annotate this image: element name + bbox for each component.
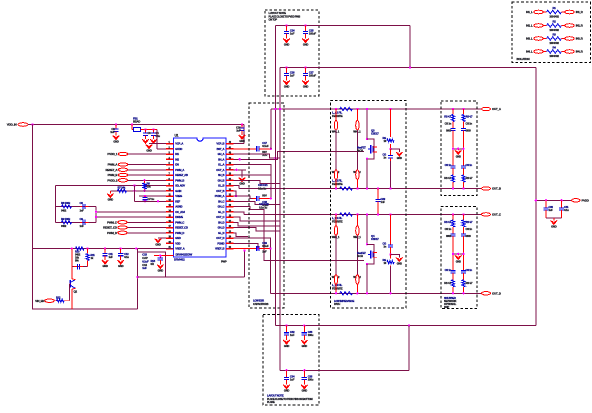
svg-text:100u: 100u <box>308 333 314 337</box>
jumper WA1 mid wire <box>335 130 337 170</box>
svg-text:FERRITE: FERRITE <box>332 219 343 223</box>
port P_R3R <box>565 37 575 41</box>
wire net MODE top <box>55 185 166 187</box>
jumper WA1 top lead <box>335 109 337 121</box>
node gndbox right node <box>136 276 138 278</box>
svg-text:0603: 0603 <box>446 129 452 133</box>
pin 40 stub (right) <box>226 153 234 155</box>
port J_IN <box>18 123 28 127</box>
ground C4 gnd <box>150 139 156 143</box>
capacitor C7 <box>142 196 147 201</box>
svg-text:1uF: 1uF <box>110 130 115 134</box>
node Q4 dnode <box>366 243 368 245</box>
svg-text:0.1u 1u: 0.1u 1u <box>258 187 267 191</box>
node PVDD2@R6 <box>143 179 145 181</box>
svg-text:100 0402: 100 0402 <box>549 41 559 45</box>
resistor R6 leads <box>144 180 146 191</box>
svg-text:GND: GND <box>303 43 309 47</box>
svg-text:1nF: 1nF <box>80 208 85 212</box>
svg-text:0.1uF: 0.1uF <box>262 144 269 148</box>
jumper WB2b <box>356 275 359 285</box>
svg-text:CS 1n: CS 1n <box>445 268 452 272</box>
pin 14 stub (left) <box>166 211 174 213</box>
svg-text:PWM_C: PWM_C <box>175 220 184 224</box>
OCADJ gnd lead <box>109 191 111 194</box>
EN wire <box>54 300 69 302</box>
capacitor C32 <box>284 326 289 340</box>
svg-text:GND: GND <box>239 139 245 143</box>
capacitor C21s <box>461 233 466 254</box>
node VDD_IN@C2 <box>115 123 117 125</box>
pin 16 stub (left) <box>166 221 174 223</box>
svg-text:VCP_B: VCP_B <box>216 142 224 146</box>
resistor R10t <box>451 175 454 182</box>
wire sub wire <box>72 266 88 268</box>
ground C24 gnd <box>283 39 289 43</box>
node pgnd@244 <box>243 249 245 251</box>
R10t lead <box>452 169 454 175</box>
node VDD_IN/left drop <box>31 123 33 125</box>
port P_OUT_D <box>482 292 491 295</box>
svg-text:1uF: 1uF <box>109 255 114 259</box>
svg-text:REF: REF <box>175 199 180 203</box>
svg-text:GND: GND <box>397 156 402 160</box>
pin 5 stub (left) <box>166 164 174 166</box>
svg-text:0.1u: 0.1u <box>124 255 129 259</box>
node p20 dot <box>257 247 259 249</box>
pin 18 stub (left) <box>166 232 174 234</box>
svg-text:CS 1n: CS 1n <box>466 163 473 167</box>
Q2 collector <box>72 278 76 281</box>
svg-text:GND: GND <box>397 262 402 266</box>
p6 gnd drop <box>241 170 243 178</box>
svg-text:RESET_A: RESET_A <box>105 168 118 172</box>
node fb node c3 <box>144 128 146 130</box>
wire pvdd right loop v <box>535 68 537 326</box>
node pvddout@561 <box>560 199 562 201</box>
capacitor C21t <box>461 254 466 274</box>
ground C2 gnd <box>113 136 119 140</box>
dashed box supply bypass group <box>265 10 319 96</box>
ground G4 gnd <box>396 257 402 261</box>
svg-text:R8 100k: R8 100k <box>61 201 71 205</box>
dashed box series resistor legend <box>512 2 591 63</box>
svg-text:GH_B: GH_B <box>218 178 225 182</box>
svg-text:VREF_A: VREF_A <box>175 247 184 251</box>
node snub21 top <box>462 213 464 215</box>
svg-text:1uF: 1uF <box>290 74 295 78</box>
jumper WA2 mid wire <box>356 130 358 170</box>
transistor Q4 loop <box>367 244 374 264</box>
svg-text:GND: GND <box>118 264 124 268</box>
svg-text:CS 1n: CS 1n <box>466 122 473 126</box>
capacitor C12 <box>118 249 123 261</box>
port P_PWM_D <box>118 231 128 234</box>
ground C33 gnd <box>301 340 307 344</box>
jumper WB1b <box>334 275 337 285</box>
resistor R21s <box>462 220 465 227</box>
node C7 bot <box>144 200 146 202</box>
dashed box decoupling group <box>249 103 284 308</box>
node snub11 top <box>462 108 464 110</box>
port P_PVDD_1 <box>118 152 128 155</box>
jumper WB1 mid wire <box>335 235 337 274</box>
wire p18 net <box>234 233 249 237</box>
wire x2 vertical <box>279 68 281 371</box>
resistor R2 <box>547 24 562 27</box>
capacitor C3 <box>143 130 148 140</box>
ground C35 gnd <box>301 385 307 389</box>
capacitor C34 <box>284 370 289 384</box>
capacitor C11s <box>461 128 466 149</box>
node rail1@286.5 <box>285 24 287 26</box>
resistor R8 <box>62 205 72 208</box>
node snub20 top <box>452 213 454 215</box>
wire p9 out <box>234 186 240 189</box>
wire pvdd bottom <box>409 325 536 327</box>
capacitor C10s <box>450 128 455 149</box>
R10s lead <box>452 109 454 115</box>
pin 6 stub (left) <box>166 169 174 171</box>
port P_OUT_B <box>482 187 491 190</box>
svg-text:GND: GND <box>102 264 108 268</box>
svg-text:GH_A: GH_A <box>218 152 225 156</box>
node snub20 bot <box>452 292 454 294</box>
resistor R20t <box>451 280 454 287</box>
svg-text:SH_B: SH_B <box>218 173 225 177</box>
ground snub2 gnd <box>455 255 461 259</box>
R4g lead <box>390 214 392 242</box>
svg-text:DRV8412DDW: DRV8412DDW <box>176 253 193 257</box>
svg-text:GND: GND <box>113 140 119 144</box>
svg-text:PVDD_2: PVDD_2 <box>107 178 118 182</box>
pin 33 stub (right) <box>226 190 234 192</box>
capacitor C35 <box>302 370 307 384</box>
resistor R4g <box>387 261 394 264</box>
node pvddout@546 <box>545 199 547 201</box>
svg-text:RESET_AB: RESET_AB <box>175 173 188 177</box>
svg-text:RS 4.7: RS 4.7 <box>466 281 474 285</box>
capacitor C15 <box>158 256 163 265</box>
svg-text:VDD_IN: VDD_IN <box>7 123 17 127</box>
resistor R20s <box>451 220 454 227</box>
node rail@390/214.4 <box>389 213 391 215</box>
R11s lead <box>463 109 465 115</box>
C4g lead <box>390 266 392 293</box>
resistor R4 <box>547 50 562 53</box>
pin 7 stub (left) <box>166 174 174 176</box>
R11 lead <box>87 249 89 254</box>
node p5 join <box>270 187 272 189</box>
svg-text:1uF: 1uF <box>290 378 295 382</box>
wire net PVDD_2 <box>128 179 166 181</box>
wire x1 vertical <box>274 26 276 326</box>
jumper WB2a <box>356 226 359 236</box>
svg-text:100 0402: 100 0402 <box>549 14 559 18</box>
svg-text:1nF: 1nF <box>80 224 85 228</box>
pin 31 stub (right) <box>226 200 234 202</box>
jumper WB1 bot lead <box>335 284 337 293</box>
capacitor C27 <box>303 68 308 81</box>
svg-text:GND: GND <box>284 344 290 348</box>
svg-text:GND: GND <box>284 389 290 393</box>
snub1 gnd lead <box>457 149 459 151</box>
node rail@367/293.3 <box>366 292 368 294</box>
jumper WA1 bot lead <box>335 180 337 189</box>
svg-text:GAIN: GAIN <box>175 189 181 193</box>
svg-text:100u: 100u <box>308 378 314 382</box>
svg-text:IN3_L: IN3_L <box>526 37 533 41</box>
svg-text:IN4_R: IN4_R <box>576 50 583 54</box>
node b2@304.3 <box>303 369 305 371</box>
resistor load resistor rail 293.3 <box>340 292 353 295</box>
node gndrail@71.8 <box>71 247 73 249</box>
C3g lead <box>390 161 392 189</box>
node midcap top <box>377 187 379 189</box>
ground C12 gnd <box>118 260 124 264</box>
ground C34 gnd <box>283 385 289 389</box>
svg-text:GND: GND <box>155 243 161 247</box>
svg-text:VREF_B: VREF_B <box>215 247 224 251</box>
R21s lead <box>463 214 465 220</box>
svg-text:OUT_A: OUT_A <box>216 168 224 172</box>
node snub2 midR <box>462 253 464 255</box>
capacitor C20t <box>450 254 455 274</box>
resistor R12 <box>57 299 65 302</box>
svg-text:BEAD: BEAD <box>133 120 140 124</box>
ground C32 gnd <box>283 340 289 344</box>
ferrite bead FB1 <box>132 125 157 132</box>
C15 top lead <box>159 255 161 257</box>
svg-text:CS 1n: CS 1n <box>445 122 452 126</box>
port P_EN <box>45 299 55 302</box>
svg-text:EN: EN <box>175 163 179 167</box>
node fb node c4 <box>152 128 154 130</box>
pin 30 stub (right) <box>226 206 234 208</box>
wire p17 net <box>234 228 281 232</box>
jumper WA1b <box>334 170 337 180</box>
R3 wire b <box>562 38 565 40</box>
resistor load resistor rail 188.5 <box>340 187 353 190</box>
pin 15 stub (left) <box>166 216 174 218</box>
resistor R1 <box>547 10 562 13</box>
R1 wire b <box>562 11 565 13</box>
wire net GND rail <box>33 248 174 250</box>
pin 17 stub (left) <box>166 227 174 229</box>
svg-text:R12: R12 <box>56 295 61 299</box>
wire net VREG2 <box>135 200 167 202</box>
svg-text:PWM_D: PWM_D <box>175 231 184 235</box>
svg-text:0402: 0402 <box>61 208 67 212</box>
svg-text:OC_ADJ: OC_ADJ <box>175 210 185 214</box>
svg-text:OUT_C: OUT_C <box>216 215 224 219</box>
svg-text:PWM_A: PWM_A <box>175 168 184 172</box>
svg-text:OUT_B: OUT_B <box>216 189 224 193</box>
resistor load resistor rail 214.4 <box>340 213 353 216</box>
node p6 dot <box>235 169 237 171</box>
wire net VREG1 <box>139 195 166 197</box>
node snub1 midnode <box>457 148 459 150</box>
wire pin1 riser <box>243 125 245 144</box>
port P_R3L <box>534 37 544 41</box>
pin 8 stub (left) <box>166 179 174 181</box>
node pvdd@x2 <box>279 108 281 110</box>
resistor R10s <box>451 115 454 122</box>
node vdd@242 <box>241 123 243 125</box>
node rail@336.0/214.4 <box>335 213 337 215</box>
svg-text:U1: U1 <box>175 134 179 138</box>
wire net OUT_D rail <box>271 292 482 294</box>
R20s lead <box>452 214 454 220</box>
pvdd gnd lead <box>553 218 555 221</box>
port P_RESET_A <box>118 168 128 171</box>
svg-text:CS 1n: CS 1n <box>466 227 473 231</box>
jumper WA2 top lead <box>356 109 358 121</box>
svg-text:0.1u 1u: 0.1u 1u <box>259 205 268 209</box>
svg-text:PVDD: PVDD <box>582 198 589 202</box>
svg-text:RS 4.7: RS 4.7 <box>466 176 474 180</box>
wire c30/31 join <box>546 217 562 219</box>
pin 37 stub (right) <box>226 169 234 171</box>
svg-text:PGND: PGND <box>217 241 224 245</box>
port P_R1L <box>534 10 544 14</box>
svg-text:FERRITE: FERRITE <box>332 182 343 186</box>
svg-text:OUT_C: OUT_C <box>492 213 502 217</box>
wire p3 net <box>234 154 281 158</box>
svg-text:PWP: PWP <box>221 260 227 264</box>
svg-text:GND: GND <box>146 149 152 153</box>
wire net GVDD rail b2 <box>280 369 409 371</box>
pin 4 stub (left) <box>166 158 174 160</box>
ground C27 gnd <box>302 81 308 85</box>
capacitor C2 <box>113 125 118 136</box>
pin 25 stub (right) <box>226 232 234 234</box>
wire vert 96 <box>95 207 97 223</box>
ground pin1 gnd <box>146 145 152 149</box>
R21t lead2 <box>463 287 465 294</box>
svg-text:GL_D: GL_D <box>218 231 225 235</box>
node gndrail@87.6 <box>86 247 88 249</box>
svg-text:1nF: 1nF <box>381 200 386 204</box>
node gndrail@105 <box>104 247 106 249</box>
svg-text:1uF: 1uF <box>290 333 295 337</box>
R4 wire b <box>562 51 565 53</box>
svg-text:IN2_L: IN2_L <box>526 24 533 28</box>
wire p5 sha <box>234 165 271 189</box>
R2 wire a <box>543 25 546 27</box>
pin 23 stub (right) <box>226 242 234 244</box>
wire p16 net <box>234 222 281 226</box>
svg-text:IN1_L: IN1_L <box>526 10 533 14</box>
ground C15 gnd <box>157 265 163 269</box>
wire p12 net <box>234 201 281 204</box>
port P_PVDD <box>572 199 581 202</box>
R10s lead2 <box>452 122 454 128</box>
wire net OUT_C rail <box>244 213 482 215</box>
wire net VDD_IN main <box>28 124 244 126</box>
pin 12 stub (left) <box>166 200 174 202</box>
node R6 bottom node <box>143 190 145 192</box>
node rail2@286.5 <box>285 66 287 68</box>
node rail@367/214.4 <box>366 213 368 215</box>
node rail@390/109.0 <box>389 108 391 110</box>
node snub11 bot <box>462 187 464 189</box>
svg-text:GVDD: GVDD <box>175 147 182 151</box>
svg-text:VIN_EN: VIN_EN <box>35 299 44 303</box>
svg-text:GND: GND <box>108 198 114 202</box>
svg-text:CSD17: CSD17 <box>371 237 379 241</box>
pin 21 stub (left) <box>166 248 174 250</box>
wire net PVDD rail <box>271 108 482 110</box>
node rail@367/188.5 <box>366 187 368 189</box>
R1 wire a <box>543 11 546 13</box>
jumper WB2 top lead <box>356 214 358 226</box>
lead mid 4 <box>390 255 392 259</box>
node Q4 snode <box>366 263 368 265</box>
pin 38 stub (right) <box>226 164 234 166</box>
node b1@286.5 <box>285 324 287 326</box>
svg-text:OUT_B: OUT_B <box>492 187 501 191</box>
R4g lead2 <box>390 249 392 254</box>
ground G3 gnd <box>396 152 402 156</box>
ground p6 gnd <box>239 178 245 182</box>
capacitor C30 <box>543 200 548 218</box>
Q2 collector lead2 <box>71 267 73 279</box>
pin 39 stub (right) <box>226 158 234 160</box>
pin 27 stub (right) <box>226 221 234 223</box>
transistor Q3 symbol <box>368 145 377 153</box>
node gndrail@121 <box>120 247 122 249</box>
node rail@336.0/109.0 <box>335 108 337 110</box>
pin 9 stub (left) <box>166 185 174 187</box>
node gnode4 <box>389 253 391 255</box>
capacitor C18 <box>253 196 271 201</box>
svg-text:100 0402: 100 0402 <box>549 28 559 32</box>
R11t lead2 <box>463 182 465 189</box>
pin 2 stub (left) <box>166 148 174 150</box>
ground snub1 gnd <box>455 150 461 154</box>
wire FB to pin2 <box>157 148 166 150</box>
svg-text:GND: GND <box>284 85 290 89</box>
node gndrail@136 <box>135 247 137 249</box>
wire left vertical to GND box <box>32 125 34 310</box>
capacitor C8 <box>80 204 89 209</box>
svg-text:1uF: 1uF <box>236 129 241 133</box>
svg-text:1uF: 1uF <box>290 32 295 36</box>
snub2 gnd lead <box>457 254 459 256</box>
svg-text:GND: GND <box>284 43 290 47</box>
Q2 collector lead <box>71 249 73 267</box>
wire snub1 mid <box>453 148 464 150</box>
svg-text:VREG: VREG <box>175 194 182 198</box>
svg-text:PVDD_A: PVDD_A <box>215 194 225 198</box>
ground C11 gnd <box>102 260 108 264</box>
capacitor C9 <box>80 220 89 225</box>
svg-text:50V: 50V <box>262 193 267 197</box>
svg-text:SH_D: SH_D <box>218 220 225 224</box>
node rail@336.0/188.5 <box>335 187 337 189</box>
wire riser 409 <box>408 326 410 371</box>
node rail@357.4/214.4 <box>356 213 358 215</box>
svg-text:PVDD_1: PVDD_1 <box>107 152 118 156</box>
node OCADJ@134 <box>133 190 135 192</box>
pin 29 stub (right) <box>226 211 234 213</box>
dashed box H-bridge output filter group <box>331 101 407 309</box>
ground-plane box outline <box>33 249 138 310</box>
port P_PWM_A <box>118 163 128 166</box>
svg-text:CAPACITORS: CAPACITORS <box>253 302 269 306</box>
wire p20 net <box>234 243 259 248</box>
